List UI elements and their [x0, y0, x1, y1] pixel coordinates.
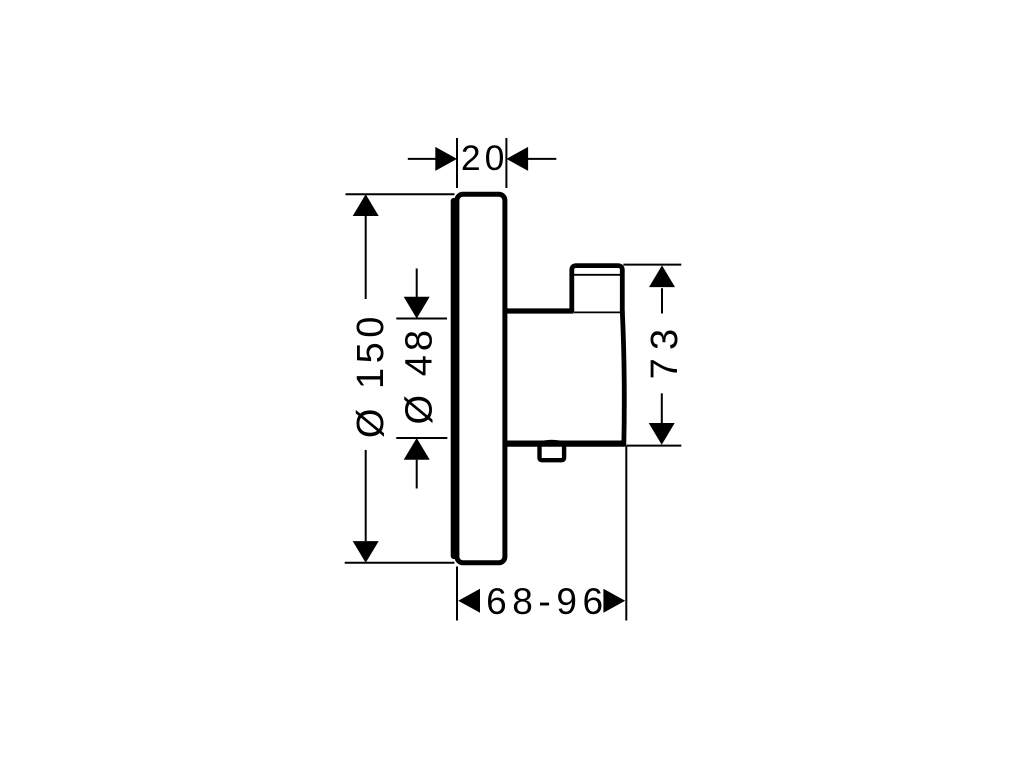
svg-text:68-96: 68-96 — [486, 581, 603, 622]
svg-text:Ø 48: Ø 48 — [398, 330, 440, 425]
svg-text:Ø 150: Ø 150 — [350, 317, 392, 439]
